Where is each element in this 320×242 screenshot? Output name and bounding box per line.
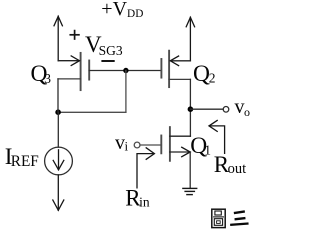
node: Q3 drain junction [55,109,61,115]
terminal vi (open circle) [134,142,140,148]
wire: Q2 drain down through output node to Q1 drain [189,79,191,136]
minus sign of VSG3 [102,60,113,62]
plus sign of VSG3 [70,31,79,39]
svg-text:Q3: Q3 [31,61,52,87]
current source IREF [45,147,73,175]
caption glyph: 三 [231,212,247,225]
transistor Q1 (NMOS, gate left / channel right) [161,127,190,161]
wire: drain bus horizontal [58,111,126,113]
power VDD arrow (Q3 source rail) [54,16,62,60]
node: gate-drain tie junction [123,68,128,73]
svg-text:Q1: Q1 [190,133,211,159]
svg-text:Rin: Rin [125,186,150,211]
wire: gate bus Q3-Q2 [89,70,161,72]
wire: junction down to current source [57,112,59,147]
power VDD arrow (Q2 source rail) [186,17,194,61]
wire: vi to Q1 gate [140,144,161,146]
svg-text:vo: vo [235,96,251,119]
ground [183,188,197,194]
node: output junction [188,106,194,112]
svg-text:Q2: Q2 [193,61,216,87]
svg-text:IREF: IREF [5,144,39,170]
transistor Q3 (PMOS, channel left / gate right) [58,53,89,90]
svg-text:+VDD: +VDD [101,0,143,20]
terminal vo (open circle) [223,107,229,113]
svg-text:VSG3: VSG3 [85,32,123,58]
caption glyph: 圖 [212,209,225,227]
wire: output stub to vo terminal [190,108,223,110]
arrow Rout (pointing at output branch) [209,120,225,153]
transistor Q2 (PMOS, gate left / channel right) [161,51,190,87]
svg-text:Rout: Rout [214,152,246,177]
wire: Q1 source down to ground [189,152,191,188]
arrow Rin (pointing at gate) [137,148,154,188]
svg-text:vi: vi [115,132,129,154]
wire: Q3 drain down to junction [57,79,59,112]
wire: diode-connection vertical [125,71,127,113]
arrow: IREF tail down [53,175,64,210]
